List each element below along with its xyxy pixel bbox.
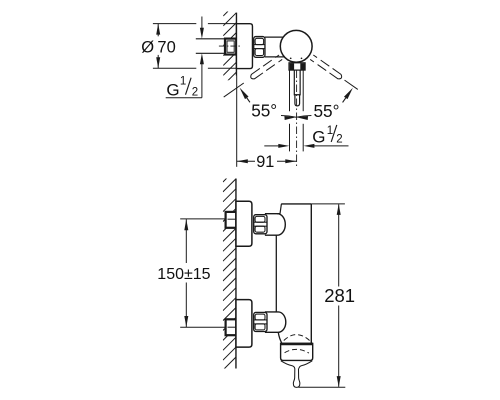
svg-text:Ø: Ø bbox=[141, 39, 154, 57]
angle dimension leader arrow left (at rotated lever line) bbox=[240, 88, 249, 99]
svg-text:55°: 55° bbox=[314, 101, 340, 121]
body of mixer (front view) bbox=[281, 203, 311, 205]
lever rotated 55deg right (phantom) bbox=[310, 55, 359, 92]
collar bottom face curves bbox=[281, 361, 295, 369]
dimension 150±15 line and arrows bbox=[185, 219, 187, 263]
dimension Ø70 dimension line with arrows bbox=[157, 24, 159, 37]
svg-text:281: 281 bbox=[324, 285, 355, 306]
svg-text:G: G bbox=[312, 128, 325, 147]
G 1/2 supply pipe (top view) bbox=[196, 38, 226, 40]
svg-text:55°: 55° bbox=[251, 101, 277, 121]
lever centerline bbox=[296, 71, 298, 167]
front view wall line bbox=[235, 179, 237, 369]
union nut (top view) bbox=[254, 37, 265, 58]
lower escutcheon (front) bbox=[236, 300, 252, 348]
svg-text:2: 2 bbox=[336, 134, 342, 146]
lower union boss (front) bbox=[265, 312, 286, 332]
lever rotated 55deg left (phantom) bbox=[222, 55, 282, 99]
dimension 150±15 extension lines bbox=[180, 218, 225, 220]
mixer body circle (top view) bbox=[280, 30, 312, 62]
collar thick top line bbox=[280, 343, 313, 346]
upper wall fitting box (front) bbox=[226, 212, 237, 228]
pipe centerline bbox=[219, 45, 240, 47]
shower hose connector (teardrop) bbox=[293, 369, 300, 388]
svg-text:2: 2 bbox=[192, 86, 198, 98]
valve body neck (top view) bbox=[265, 36, 285, 38]
upper escutcheon (front) bbox=[236, 201, 252, 246]
top view wall hatching bbox=[223, 3, 236, 95]
angle dimension converging arrows at lever centerline bbox=[281, 116, 296, 118]
lever shaft bbox=[294, 70, 300, 95]
top view wall line bbox=[235, 13, 237, 76]
pipe diameter arrows / leader line bbox=[201, 17, 203, 30]
outlet collar bbox=[281, 344, 313, 361]
hidden hose nut (dashed arc in collar) bbox=[285, 349, 309, 353]
svg-text:70: 70 bbox=[157, 39, 175, 57]
escutcheon (top view) bbox=[236, 24, 252, 69]
dimension 91 bbox=[237, 160, 255, 162]
dimension 281 bbox=[311, 203, 345, 205]
svg-text:150±15: 150±15 bbox=[157, 266, 210, 283]
svg-text:1: 1 bbox=[180, 76, 186, 88]
outlet silhouette lines below body bbox=[289, 70, 291, 111]
dimension Ø70 extension lines bbox=[153, 23, 196, 25]
upper union boss (front) bbox=[265, 214, 285, 236]
angle dimension leader arrow right (at rotated lever line) bbox=[344, 88, 353, 99]
svg-text:1: 1 bbox=[327, 125, 333, 137]
svg-text:91: 91 bbox=[256, 153, 274, 171]
svg-text:G: G bbox=[166, 81, 179, 100]
hidden internal passage (dashed arc) bbox=[284, 335, 310, 341]
lever mount block bbox=[289, 63, 305, 70]
label G 1/2 lower (outlet) with arrows bbox=[264, 145, 280, 147]
lower union nut (front) bbox=[254, 312, 267, 331]
body bottom-left taper to collar bbox=[278, 333, 282, 344]
lower wall fitting box (front) bbox=[226, 319, 237, 335]
upper union nut (front) bbox=[254, 215, 267, 234]
top view wall extension line down to 91 dim bbox=[236, 76, 238, 167]
lever tip bbox=[295, 95, 300, 106]
screw dots on body bbox=[290, 57, 292, 59]
wall fitting box (top view) bbox=[225, 39, 236, 55]
